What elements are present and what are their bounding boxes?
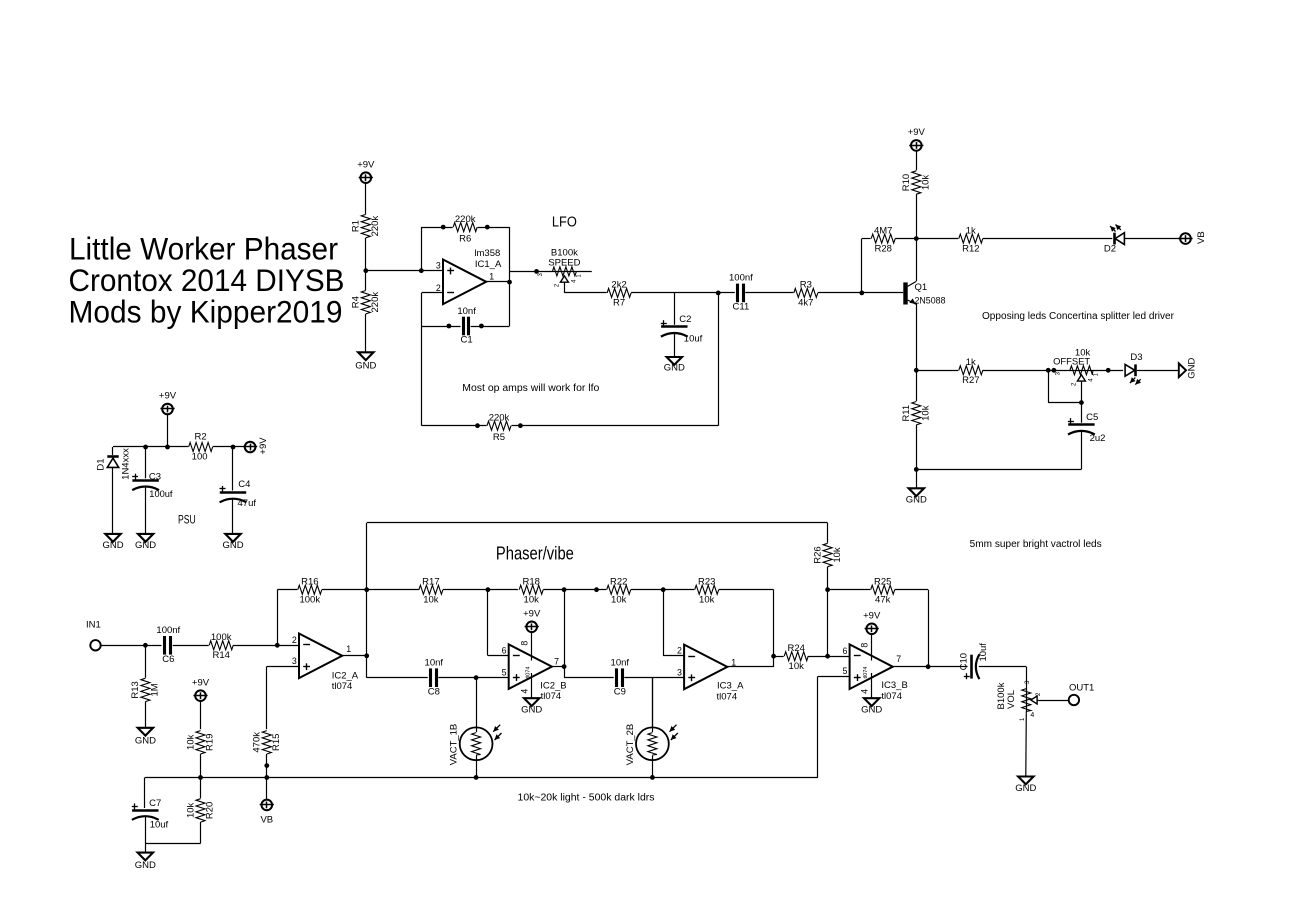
power +9V Q1 [908, 127, 926, 151]
junction D3 left [1106, 368, 1111, 373]
wire pin8 stub IC3_B [859, 634, 871, 660]
svg-text:IC3_A: IC3_A [717, 681, 744, 692]
svg-text:1N4xxx: 1N4xxx [120, 448, 131, 480]
svg-text:R10: R10 [901, 174, 912, 191]
junction R13 top [143, 643, 148, 648]
wire R24 to pin6 [808, 656, 849, 658]
svg-text:4k7: 4k7 [798, 298, 813, 309]
junction ground bus node [914, 467, 919, 472]
svg-text:+9V: +9V [159, 391, 177, 402]
svg-text:C11: C11 [733, 302, 750, 313]
svg-text:R5: R5 [493, 432, 505, 443]
svg-text:Phaser/vibe: Phaser/vibe [496, 544, 574, 564]
svg-text:+9V: +9V [908, 127, 926, 138]
wire C5 top lead [1081, 403, 1083, 425]
wire R15 vertical [266, 666, 268, 729]
svg-text:tl074: tl074 [717, 692, 738, 703]
wire emitter to R27 [916, 370, 959, 372]
wire pin4 stub IC2_B [519, 673, 531, 698]
junction R24 left [771, 654, 776, 659]
svg-text:2k2: 2k2 [611, 280, 626, 291]
svg-text:C2: C2 [679, 314, 691, 325]
svg-text:GND: GND [135, 735, 156, 746]
pot SPEED B100k [538, 247, 582, 287]
junction C11 left node [716, 291, 721, 296]
wire feedback left vertical [421, 227, 423, 271]
power +9V IC3_B [863, 611, 881, 635]
svg-text:10k: 10k [699, 595, 715, 606]
junction R15 bottom [264, 763, 269, 768]
svg-text:C10: C10 [959, 653, 970, 670]
wire R12 to D2 [983, 238, 1113, 240]
wire stage2 vertical [564, 590, 614, 678]
wire divider node to pin3 [366, 270, 442, 272]
svg-text:Most op amps will work for lfo: Most op amps will work for lfo [462, 383, 599, 394]
wire R18-R22 link [543, 589, 607, 591]
wire R6 top line [421, 227, 509, 229]
wire pin4 stub IC3_B [859, 673, 871, 698]
svg-text:GND: GND [135, 540, 156, 551]
wire C4 to ground [232, 499, 234, 534]
svg-text:C1: C1 [461, 335, 473, 346]
svg-text:R13: R13 [130, 681, 141, 698]
svg-text:100nf: 100nf [156, 625, 180, 636]
ground IC3_B [861, 698, 882, 715]
svg-text:GND: GND [102, 540, 123, 551]
svg-text:220k: 220k [370, 292, 381, 313]
led D3 [1123, 352, 1142, 385]
led D2 [1104, 225, 1126, 255]
wire R14 to pin2 [233, 645, 299, 647]
svg-text:OFFSET: OFFSET [1053, 356, 1090, 367]
wire pin2 IC3_A link [663, 590, 684, 656]
wire +9V to R19 [200, 701, 202, 729]
svg-text:10k: 10k [921, 175, 932, 191]
svg-text:Q1: Q1 [915, 282, 928, 293]
ground C2 [664, 357, 685, 374]
svg-text:lm358: lm358 [474, 248, 500, 259]
svg-text:220k: 220k [370, 216, 381, 237]
svg-text:R17: R17 [422, 577, 439, 588]
resistor R24 10k [784, 643, 809, 672]
capacitor C4 47uf [219, 479, 256, 509]
wire D1 to ground [112, 467, 114, 534]
svg-text:2u2: 2u2 [1090, 433, 1106, 444]
svg-text:IC1_A: IC1_A [475, 259, 502, 270]
ground VOL [1015, 777, 1036, 795]
svg-text:GND: GND [521, 705, 542, 716]
svg-text:VACT_1B: VACT_1B [449, 724, 460, 766]
svg-text:VB: VB [1196, 231, 1207, 244]
svg-text:6: 6 [842, 646, 847, 656]
wire C6 to R14 [173, 645, 210, 647]
wire pot wiper down [564, 282, 608, 293]
svg-text:R20: R20 [205, 802, 216, 819]
svg-text:5: 5 [502, 668, 507, 678]
capacitor C3 100uf [132, 471, 173, 500]
resistor R7 2k2 [607, 280, 632, 309]
resistor R27 1k [958, 357, 983, 386]
svg-text:220k: 220k [455, 214, 476, 225]
wire C4 top lead [232, 447, 234, 493]
op-amp U IC2_B tl074 [509, 644, 567, 702]
ground C7 [135, 853, 156, 871]
svg-text:IC2_A: IC2_A [332, 670, 359, 681]
svg-text:100: 100 [192, 452, 208, 463]
svg-text:tl074: tl074 [863, 667, 869, 679]
power +9V IC2_B [523, 609, 541, 633]
svg-text:tl074: tl074 [526, 667, 532, 679]
svg-text:2: 2 [292, 635, 297, 645]
wire C3 to ground [145, 487, 147, 534]
junction offset left a [1046, 368, 1051, 373]
svg-text:+9V: +9V [258, 437, 269, 455]
wire R11 to ground node [916, 425, 918, 488]
svg-text:R23: R23 [698, 577, 715, 588]
wire pin3 IC2_A left [267, 666, 299, 668]
pin 6 label IC3_B [842, 646, 847, 656]
svg-text:1: 1 [489, 272, 494, 282]
svg-text:D3: D3 [1130, 352, 1142, 363]
svg-text:GND: GND [664, 363, 685, 374]
svg-text:R24: R24 [787, 643, 804, 654]
op-amp U IC3_B tl074 [850, 644, 908, 702]
wire C11 to R3 [745, 292, 794, 294]
svg-text:2N5088: 2N5088 [915, 295, 946, 306]
svg-text:10uf: 10uf [150, 820, 169, 831]
svg-text:3: 3 [677, 668, 682, 678]
resistor R26 10k [812, 543, 842, 567]
svg-text:5mm super bright vactrol leds: 5mm super bright vactrol leds [970, 539, 1102, 550]
text LFO [552, 213, 577, 230]
resistor R1 220k [351, 214, 381, 238]
wire C1 right to feedback [471, 326, 510, 328]
svg-text:LFO: LFO [552, 213, 577, 230]
wire C8 to pin5 [438, 677, 508, 679]
svg-text:1: 1 [731, 657, 736, 667]
svg-text:7: 7 [896, 654, 901, 664]
junction IC3_B out [926, 664, 931, 669]
svg-text:R28: R28 [874, 243, 891, 254]
junction R26 bottom [825, 654, 830, 659]
wire output to pot [510, 271, 592, 273]
wire C9 to pin3 [624, 677, 684, 679]
text opposing leds [982, 311, 1175, 322]
junction offset wiper node [1079, 400, 1084, 405]
wire pin2 down vertical [421, 293, 423, 426]
wire IC3_A output [727, 666, 773, 668]
junction R22-R23 node [661, 587, 666, 592]
svg-text:R1: R1 [351, 220, 362, 232]
junction PSU out [231, 445, 236, 450]
svg-text:GND: GND [222, 540, 243, 551]
wire R5 bottom line [422, 425, 719, 427]
svg-text:10uf: 10uf [978, 643, 989, 662]
pin 6 label IC2_B [502, 645, 507, 655]
wire node to R12 [916, 238, 959, 240]
capacitor C7 10uf [131, 798, 168, 831]
terminal IN1 [86, 619, 101, 650]
wire C1 branch [422, 326, 462, 328]
svg-text:10k: 10k [611, 595, 627, 606]
svg-text:1: 1 [346, 644, 351, 654]
resistor R12 1k [958, 225, 983, 254]
wire top feedback bus [367, 522, 828, 524]
junction pin3 node [419, 268, 424, 273]
pin 2 label IC3_A [677, 646, 682, 656]
wire R16 to node [322, 589, 367, 591]
wire feedback right vertical [509, 227, 511, 326]
text vactrol leds [970, 539, 1102, 550]
svg-text:10k: 10k [789, 661, 805, 672]
svg-text:C9: C9 [614, 686, 626, 697]
svg-text:IC2_B: IC2_B [540, 680, 566, 691]
junction R16-R17 node [364, 587, 369, 592]
wire R5 right vertical [718, 293, 720, 426]
wire stage1 vertical [366, 523, 368, 678]
resistor R5 220k [487, 413, 512, 443]
junction R25 left [825, 587, 830, 592]
wire R28 to node [895, 238, 916, 240]
junction R18 right [562, 587, 567, 592]
wire D3 to ground [1137, 370, 1179, 372]
svg-text:R12: R12 [962, 243, 979, 254]
wire C2 to ground [674, 334, 676, 358]
wire R22 to R23 [631, 589, 695, 591]
svg-text:Opposing leds Concertina split: Opposing leds Concertina splitter led dr… [982, 311, 1175, 322]
svg-text:10nf: 10nf [425, 658, 444, 669]
svg-text:D2: D2 [1104, 244, 1116, 255]
svg-text:tl074: tl074 [881, 691, 902, 702]
ground C4 [222, 534, 243, 551]
pin 3 label IC2_A [292, 656, 297, 666]
svg-text:R26: R26 [812, 546, 823, 563]
wire VOL wiper to OUT1 [1037, 700, 1069, 702]
wire R26 to node [827, 567, 829, 657]
ground C3 [135, 534, 156, 551]
junction pin2 node [275, 643, 280, 648]
svg-text:10nf: 10nf [611, 658, 630, 669]
wire VOL to ground [1025, 711, 1028, 776]
svg-text:C8: C8 [428, 686, 440, 697]
svg-text:100nf: 100nf [729, 273, 753, 284]
wire C3 top lead [145, 447, 147, 480]
svg-text:Crontox 2014 DIYSB: Crontox 2014 DIYSB [69, 262, 345, 298]
wire +9V to R10 [916, 151, 918, 171]
capacitor C8 10nf [425, 658, 444, 698]
svg-text:10uf: 10uf [684, 334, 703, 345]
junction R6 right [485, 225, 490, 230]
wire R7 to C11 [631, 292, 735, 294]
resistor R3 4k7 [793, 280, 818, 309]
wire R19 to bus [200, 754, 202, 778]
svg-text:C4: C4 [238, 479, 250, 490]
svg-text:R4: R4 [351, 296, 362, 308]
wire IN1 to C6 [101, 645, 162, 647]
svg-text:R16: R16 [301, 577, 318, 588]
wire +9V to R1 [365, 183, 367, 215]
power +9V PSU top [159, 391, 177, 415]
wire R24 line left [774, 656, 785, 658]
power +9V PSU out [243, 437, 269, 455]
wire R13 to ground [145, 702, 147, 728]
vactrol VACT_2B [625, 678, 678, 778]
vactrol VACT_1B [449, 678, 502, 778]
resistor R23 10k [694, 577, 719, 606]
ground R13 [135, 728, 156, 747]
wire PSU rail [113, 446, 189, 448]
wire pin8 stub IC2_B [519, 632, 531, 660]
svg-text:R14: R14 [212, 650, 229, 661]
wire offset rheostat link [1048, 370, 1081, 402]
svg-text:GND: GND [906, 494, 927, 505]
capacitor C2 10uf [660, 314, 702, 345]
junction R19 bus [198, 775, 203, 780]
junction VACT1 top [474, 675, 479, 680]
ground Q1 [906, 488, 927, 505]
op-amp U IC1_A lm358 [443, 248, 502, 304]
svg-text:R6: R6 [459, 234, 471, 245]
capacitor C9 10nf [611, 658, 630, 698]
svg-text:C5: C5 [1086, 412, 1098, 423]
svg-text:8: 8 [519, 641, 529, 646]
junction R6 left [441, 225, 446, 230]
pot OFFSET 10k [1053, 347, 1099, 386]
junction IC2_A out [364, 653, 369, 658]
resistor R10 10k [901, 170, 931, 194]
resistor R4 220k [351, 271, 381, 315]
svg-text:470k: 470k [252, 732, 263, 753]
resistor R17 10k [418, 577, 443, 606]
ground right rotated [1179, 358, 1198, 379]
svg-text:2: 2 [677, 646, 682, 656]
wire R17 to R18 [367, 589, 518, 591]
svg-text:8: 8 [859, 643, 869, 648]
svg-text:C6: C6 [162, 654, 174, 665]
svg-text:VB: VB [260, 814, 273, 825]
svg-text:OUT1: OUT1 [1069, 682, 1094, 693]
svg-text:R19: R19 [205, 734, 216, 751]
op-amp U IC3_A tl074 [684, 645, 744, 703]
wire offset wiper down [1081, 381, 1083, 403]
svg-text:10k: 10k [921, 405, 932, 421]
svg-text:47k: 47k [875, 595, 891, 606]
pin 5 label IC2_B [502, 668, 507, 678]
svg-text:PSU: PSU [178, 514, 196, 526]
capacitor C1 10nf [457, 306, 476, 346]
junction VACT2 bus [650, 775, 655, 780]
junction R17-R18 node [486, 587, 491, 592]
wire VACT2 drop [652, 678, 654, 728]
svg-text:R7: R7 [613, 298, 625, 309]
svg-text:R27: R27 [962, 375, 979, 386]
pot VOL B100k [996, 680, 1042, 721]
capacitor C5 2u2 [1067, 412, 1105, 444]
resistor R25 47k [870, 577, 895, 606]
svg-text:SPEED: SPEED [548, 257, 580, 268]
wire R15 to VB [266, 754, 268, 800]
resistor R2 100 [188, 432, 213, 463]
wire R16 up link [277, 590, 298, 646]
transistor Q1 2N5088 [906, 281, 946, 306]
capacitor C6 100nf [156, 625, 180, 665]
pin 3 label IC3_A [677, 668, 682, 678]
wire C7 top lead [144, 778, 146, 811]
wire R25 feedback [895, 590, 929, 667]
wire IC2_B output [552, 666, 564, 668]
wire C10 to pot [979, 667, 1027, 712]
junction IC2_B out [562, 664, 567, 669]
wire R2 to out [213, 446, 245, 448]
power +9V R19 [192, 677, 210, 701]
text phaser vibe [496, 544, 574, 564]
svg-text:GND: GND [861, 705, 882, 716]
pin 2 label IC1_A [436, 283, 441, 293]
terminal OUT1 [1069, 682, 1095, 705]
pin 2 label IC2_A [292, 635, 297, 645]
svg-text:3: 3 [436, 261, 441, 271]
svg-text:R3: R3 [800, 280, 812, 291]
svg-text:GND: GND [355, 360, 376, 371]
junction PSU 9V [165, 445, 170, 450]
svg-text:R25: R25 [874, 577, 891, 588]
svg-text:10k: 10k [524, 595, 540, 606]
svg-text:7: 7 [554, 657, 559, 667]
resistor R13 1M [130, 645, 160, 702]
svg-text:10k: 10k [423, 595, 439, 606]
wire R3 to base [818, 292, 903, 294]
svg-text:D1: D1 [95, 458, 106, 470]
svg-text:GND: GND [1186, 358, 1197, 379]
svg-text:R22: R22 [610, 577, 627, 588]
svg-text:C3: C3 [149, 471, 161, 482]
resistor R28 4M7 [871, 225, 896, 254]
junction PSU C3 [143, 445, 148, 450]
wire D1 top lead [112, 447, 114, 456]
svg-text:47uf: 47uf [238, 498, 257, 509]
resistor R22 10k [606, 577, 631, 606]
resistor R6 220k [453, 214, 478, 245]
junction C1 left [447, 324, 452, 329]
junction R5 left [475, 423, 480, 428]
svg-text:100k: 100k [211, 632, 232, 643]
svg-text:4: 4 [519, 689, 529, 694]
power VB bottom [260, 800, 274, 826]
svg-text:Mods by Kipper2019: Mods by Kipper2019 [69, 294, 343, 330]
svg-text:1k: 1k [966, 225, 976, 236]
wire R27 to pot [982, 370, 1069, 372]
diode D1 1N4xxx [95, 448, 131, 480]
wire IC3_B output [892, 666, 969, 668]
wire R1 to node [365, 238, 367, 271]
wire VB bus [145, 777, 818, 779]
text PSU [178, 514, 196, 526]
svg-text:10k: 10k [832, 547, 843, 563]
svg-text:GND: GND [135, 860, 156, 871]
svg-text:+9V: +9V [523, 609, 541, 620]
svg-text:4: 4 [1030, 712, 1034, 719]
svg-text:+9V: +9V [192, 677, 210, 688]
svg-text:220k: 220k [489, 413, 510, 424]
svg-text:R18: R18 [522, 577, 539, 588]
text ldr note [518, 792, 655, 803]
junction offset left b [1052, 368, 1057, 373]
svg-text:R2: R2 [195, 432, 207, 443]
svg-text:1k: 1k [966, 357, 976, 368]
wire R10 to collector [916, 194, 918, 281]
svg-text:5: 5 [842, 666, 847, 676]
junction collector node [914, 236, 919, 241]
